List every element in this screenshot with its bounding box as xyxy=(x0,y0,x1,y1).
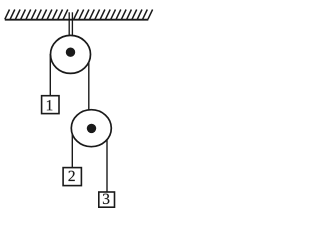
wire string left of pulley 2 down to weight 2 xyxy=(71,128,73,169)
wire string right of pulley 1 down to pulley 2 xyxy=(88,54,90,112)
pulley P2 axle hub xyxy=(87,124,96,133)
bracket left line xyxy=(68,12,70,37)
label 2 xyxy=(69,171,75,181)
weight box 3 xyxy=(99,192,115,207)
pulley P1 axle hub xyxy=(66,48,75,57)
bracket right line xyxy=(71,12,73,37)
ceiling line xyxy=(5,19,149,21)
pulley P2 wheel xyxy=(71,110,111,147)
label 3 xyxy=(103,194,109,204)
wire string right of pulley 2 down to weight 3 xyxy=(106,128,108,193)
pulley P1 wheel xyxy=(51,35,91,73)
weight box 2 xyxy=(63,168,81,186)
label 1 xyxy=(47,100,52,110)
weight box 1 xyxy=(42,96,59,114)
wire string left of pulley 1 down to weight 1 xyxy=(49,54,51,97)
ceiling hatching xyxy=(5,10,153,20)
